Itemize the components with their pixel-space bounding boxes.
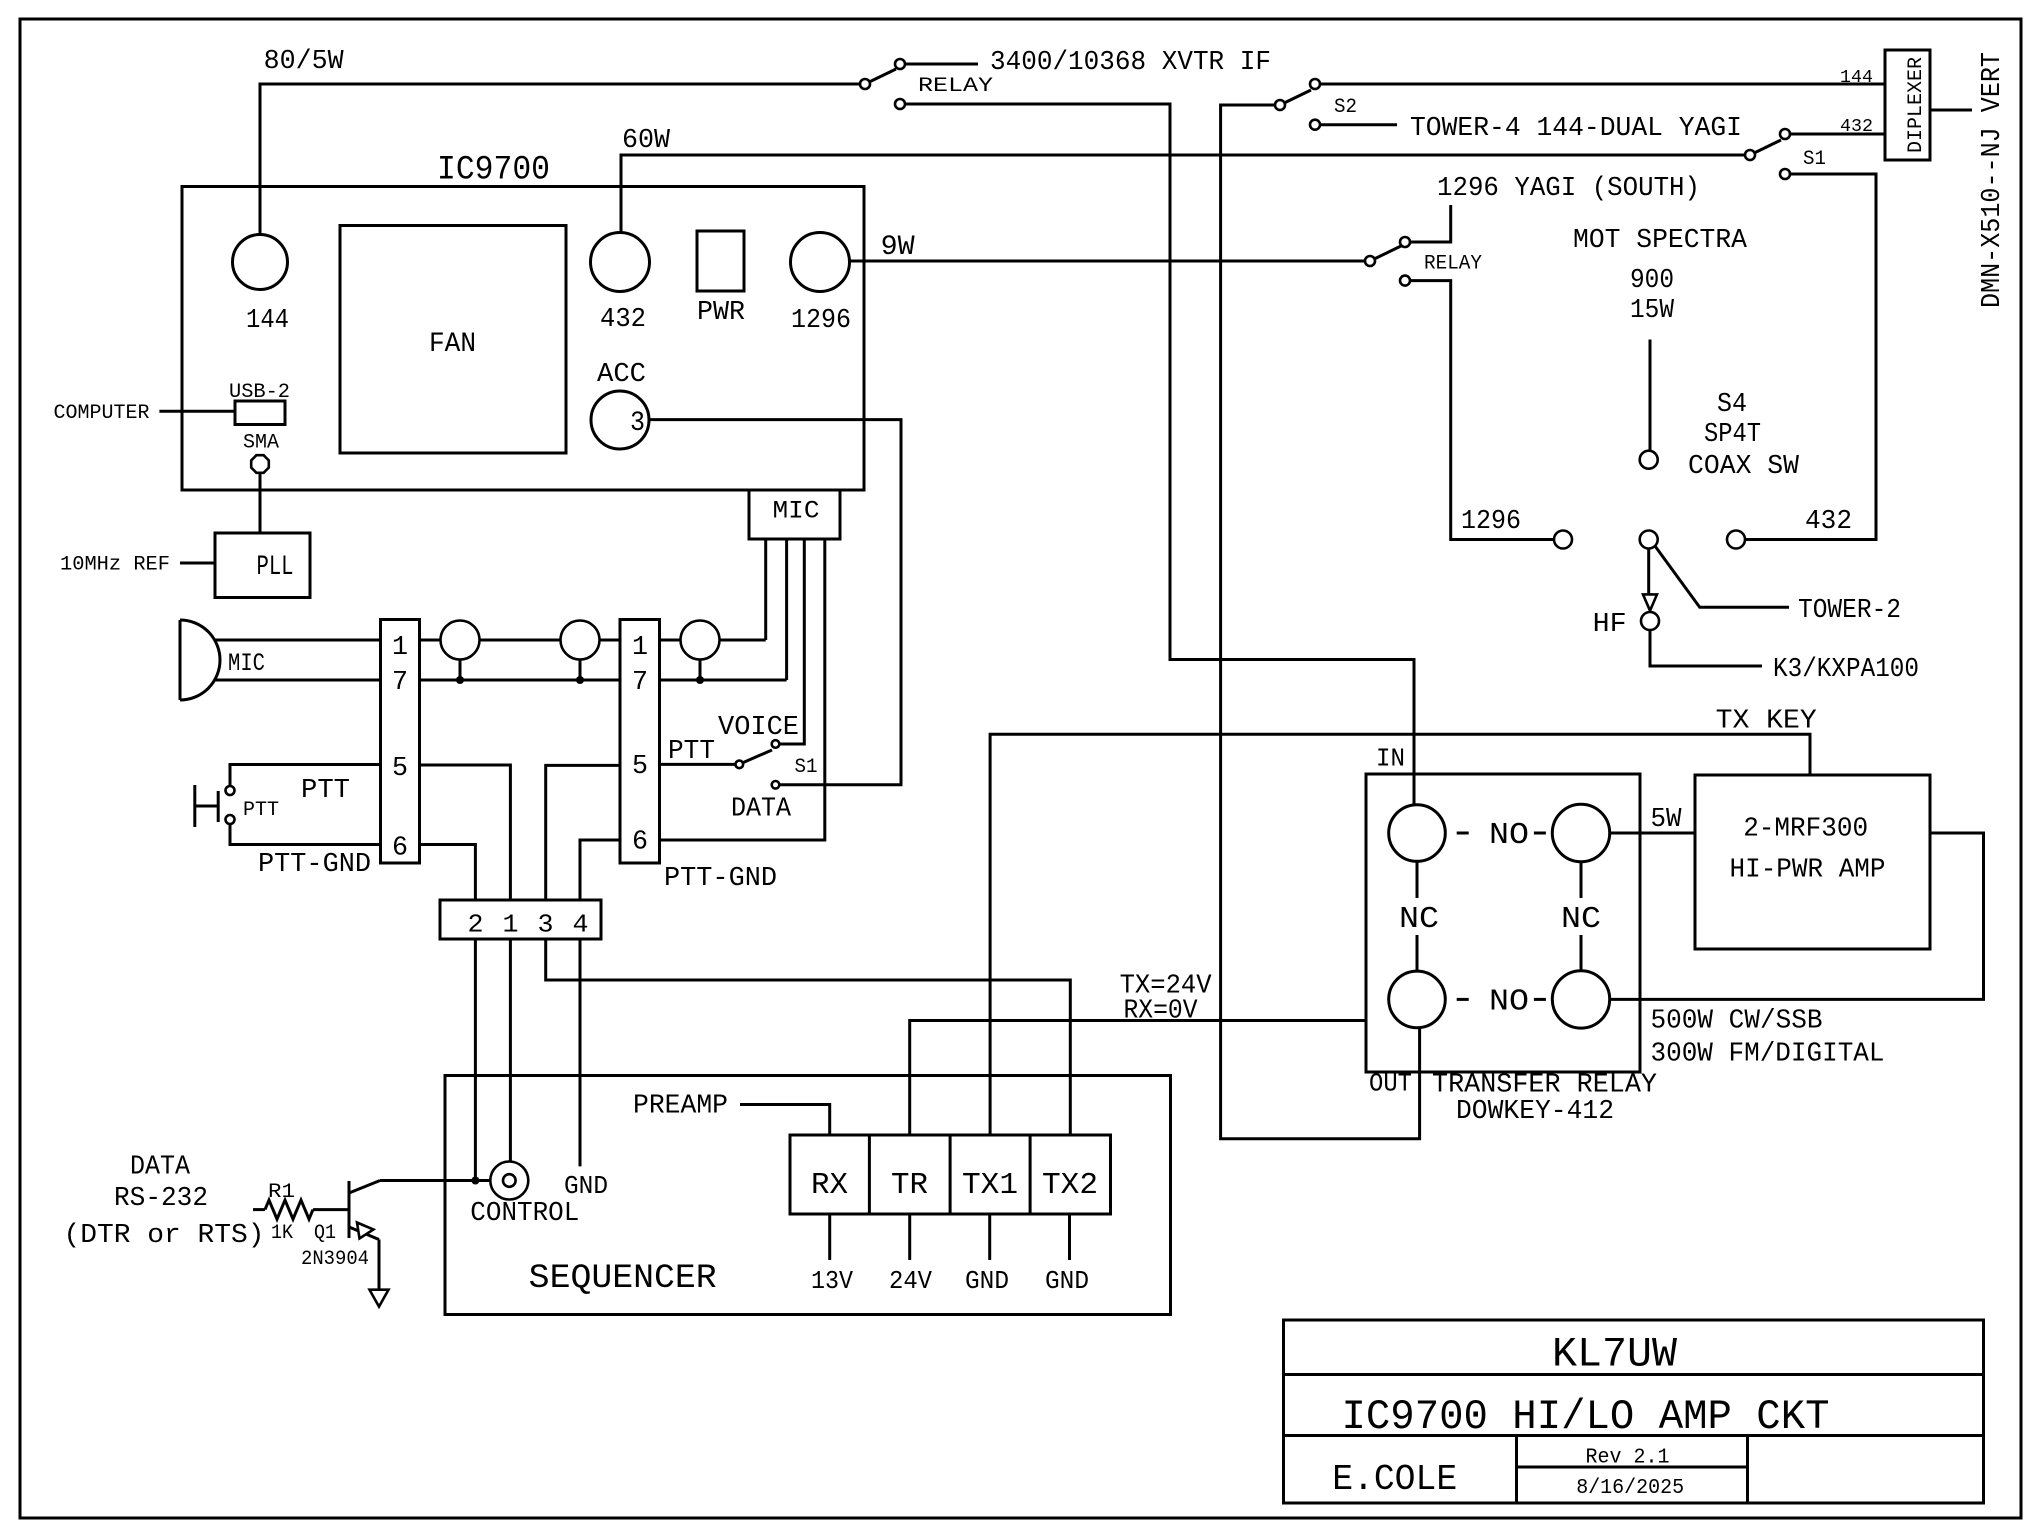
jack 144 — [233, 235, 288, 290]
svg-text:RX=0V: RX=0V — [1124, 997, 1199, 1027]
wire MIC pin3 down to VOICE contact — [779, 539, 804, 744]
svg-text:S1: S1 — [1803, 148, 1826, 171]
svg-text:PLL: PLL — [257, 552, 294, 583]
stub capacitor 2 to ground bus — [579, 660, 582, 681]
wire relay lower contact to transfer relay IN — [905, 104, 1415, 805]
jack ACC — [591, 391, 649, 449]
svg-text:PTT: PTT — [243, 799, 279, 822]
svg-text:1K: 1K — [271, 1222, 293, 1245]
wire PREAMP to RX — [740, 1105, 830, 1136]
svg-text:USB-2: USB-2 — [229, 381, 290, 404]
svg-text:NC: NC — [1399, 902, 1439, 937]
svg-text:TX1: TX1 — [962, 1168, 1018, 1203]
svg-text:TOWER-2: TOWER-2 — [1798, 596, 1901, 626]
connector USB-2 — [235, 401, 285, 425]
ground symbol at Q1 emitter — [370, 1290, 389, 1307]
title block row divider 1 — [1284, 1373, 1984, 1376]
wire TR to transfer relay coil — [910, 1021, 1366, 1136]
pushbutton PTT upper contact — [226, 786, 235, 795]
dash right of bottom NO — [1534, 998, 1546, 1001]
wire TX1 to TX KEY — [990, 734, 1810, 1135]
svg-text:PTT: PTT — [668, 737, 715, 767]
DIPLEXER box — [1885, 50, 1930, 160]
svg-text:DATA: DATA — [130, 1153, 191, 1183]
stub capacitor 3 to ground bus — [699, 660, 702, 681]
wire Q1 collector to CONTROL — [380, 1179, 491, 1182]
mic switch S1 pole contact — [736, 761, 744, 769]
jack 1296 — [791, 233, 850, 292]
stub 24V under TR — [908, 1214, 911, 1260]
svg-text:IN: IN — [1376, 744, 1405, 774]
svg-text:NO: NO — [1489, 818, 1529, 853]
wire SMA to PLL — [259, 474, 262, 534]
stub capacitor 1 to ground bus — [459, 660, 462, 681]
wire J1 pin5 to header pin1 — [420, 765, 511, 900]
wire relay upper contact to XVTR IF — [905, 63, 979, 66]
svg-text:432: 432 — [1840, 117, 1873, 137]
svg-text:3400/10368 XVTR IF: 3400/10368 XVTR IF — [990, 48, 1271, 78]
relay RELAY (1296) upper contact — [1400, 237, 1410, 247]
relay RELAY (1296) arm — [1374, 246, 1401, 259]
svg-text:VOICE: VOICE — [718, 713, 799, 743]
svg-text:1: 1 — [503, 910, 519, 940]
svg-text:SMA: SMA — [243, 432, 279, 455]
wire S2 lower contact to tower-4 — [1319, 123, 1397, 126]
svg-text:S4: S4 — [1717, 390, 1747, 420]
svg-text:24V: 24V — [889, 1266, 932, 1296]
svg-text:TX KEY: TX KEY — [1716, 707, 1817, 737]
wire header pin1 to control connector — [509, 939, 512, 1161]
wire diplexer output to antenna — [1930, 109, 1972, 112]
wire MIC pin1 down to audio bus — [764, 539, 767, 640]
relay RELAY (144 IF) lower contact — [895, 99, 905, 109]
jack 432 — [591, 233, 650, 292]
coax switch S4 input port — [1640, 451, 1658, 469]
svg-text:IC9700 HI/LO AMP CKT: IC9700 HI/LO AMP CKT — [1342, 1393, 1830, 1441]
switch S2 pole contact — [1275, 100, 1285, 110]
svg-text:TR: TR — [891, 1168, 928, 1203]
svg-text:300W FM/DIGITAL: 300W FM/DIGITAL — [1651, 1039, 1885, 1069]
relay RELAY (144 IF) pole contact — [860, 79, 870, 89]
transfer relay port amp-return (bottom-right) — [1552, 971, 1609, 1028]
stub GND under TX2 — [1068, 1214, 1071, 1260]
switch S1 arm — [1754, 140, 1781, 153]
svg-text:2N3904: 2N3904 — [301, 1248, 369, 1271]
coax switch rotor port — [1640, 531, 1658, 549]
PWR square — [697, 231, 744, 291]
svg-text:CONTROL: CONTROL — [470, 1199, 579, 1229]
connector J2 body — [620, 620, 660, 864]
svg-text:RELAY: RELAY — [1424, 253, 1482, 276]
mic switch S1 arm — [743, 750, 772, 763]
coax switch 1296 port — [1554, 531, 1572, 549]
svg-text:HI-PWR AMP: HI-PWR AMP — [1730, 856, 1886, 886]
link top-left port to NC — [1416, 861, 1419, 898]
wire transfer relay to amp input — [1610, 832, 1695, 835]
PLL box — [215, 533, 310, 598]
wire 60W from 432 jack to S1 — [621, 155, 1746, 232]
switch S2 lower contact — [1310, 120, 1320, 130]
wire ground bus J1 to J2 — [420, 679, 621, 682]
wire MIC pin4 down to J2 pin6 — [660, 539, 825, 840]
transfer relay port OUT (bottom-left) — [1389, 971, 1446, 1028]
transistor Q1 base bar — [348, 1181, 351, 1238]
transistor Q1 emitter — [349, 1227, 379, 1240]
svg-text:S1: S1 — [795, 756, 818, 779]
svg-text:PWR: PWR — [697, 298, 745, 328]
svg-text:432: 432 — [600, 305, 646, 335]
wire S1 lower contact to coax switch 432 port — [1745, 174, 1876, 540]
svg-text:GND: GND — [1045, 1266, 1089, 1296]
switch S1 lower contact — [1780, 169, 1790, 179]
svg-text:PTT-GND: PTT-GND — [258, 850, 371, 880]
svg-text:PREAMP: PREAMP — [633, 1091, 728, 1121]
pushbutton PTT stem — [195, 805, 218, 808]
wire 9W from 1296 jack to relay — [850, 260, 1366, 263]
pushbutton PTT lower contact — [226, 815, 235, 824]
svg-text:TOWER-4 144-DUAL YAGI: TOWER-4 144-DUAL YAGI — [1410, 114, 1742, 144]
feedthrough capacitor 1 — [441, 621, 480, 660]
svg-text:1: 1 — [632, 633, 648, 663]
transfer relay port IN (top-left) — [1389, 805, 1446, 862]
svg-text:KL7UW: KL7UW — [1552, 1330, 1678, 1378]
wire 80/5W from 144 jack to relay — [260, 84, 860, 235]
wire J1 pin6 to header pin2 — [420, 845, 476, 901]
svg-text:3: 3 — [630, 408, 645, 439]
title block outer box — [1284, 1320, 1984, 1503]
link NC to bottom-left port — [1416, 935, 1419, 971]
CONTROL coax connector outer — [490, 1162, 528, 1200]
svg-text:TX2: TX2 — [1042, 1168, 1098, 1203]
svg-text:4: 4 — [573, 910, 589, 940]
svg-text:TRANSFER RELAY: TRANSFER RELAY — [1432, 1071, 1657, 1101]
relay RELAY (1296) pole contact — [1365, 256, 1375, 266]
relay RELAY (1296) lower contact — [1400, 276, 1410, 286]
resistor R1 zigzag — [265, 1200, 313, 1219]
relay RELAY (144 IF) arm — [869, 69, 896, 82]
dash left of bottom NO — [1457, 998, 1469, 1001]
wire MIC pin2 down to ground bus — [785, 539, 788, 680]
svg-text:NC: NC — [1561, 902, 1601, 937]
transfer relay port 5W (top-right) — [1552, 804, 1609, 861]
wire Q1 emitter to ground — [378, 1240, 381, 1290]
coax switch rotor arm to TOWER-2 — [1655, 546, 1789, 607]
wire R1 to Q1 base — [313, 1208, 349, 1211]
wire S1 upper contact to diplexer 432 — [1789, 133, 1884, 136]
feedthrough capacitor 2 — [561, 621, 600, 660]
svg-text:GND: GND — [564, 1171, 608, 1201]
junction dot 3 — [696, 676, 704, 684]
title block rev/date divider — [1517, 1466, 1748, 1469]
title block column divider 1 — [1515, 1436, 1518, 1504]
svg-text:DOWKEY-412: DOWKEY-412 — [1456, 1097, 1614, 1127]
svg-text:Q1: Q1 — [314, 1222, 336, 1245]
svg-text:DIPLEXER: DIPLEXER — [1905, 57, 1928, 153]
connector SMA — [251, 455, 269, 473]
wire J2 pin5 to mic switch pole — [660, 763, 736, 766]
svg-text:MIC: MIC — [228, 649, 265, 678]
svg-text:RX: RX — [811, 1168, 848, 1203]
wire rotor to HF arrow — [1647, 549, 1650, 595]
MIC connector box on IC9700 — [749, 490, 840, 539]
relay RELAY (144 IF) upper contact — [895, 59, 905, 69]
svg-text:7: 7 — [392, 668, 408, 698]
transfer relay box — [1366, 774, 1640, 1072]
arrow HF — [1643, 594, 1657, 610]
svg-text:SEQUENCER: SEQUENCER — [529, 1260, 717, 1298]
svg-text:K3/KXPA100: K3/KXPA100 — [1773, 655, 1919, 685]
svg-text:144: 144 — [1840, 68, 1873, 88]
svg-text:PTT: PTT — [301, 776, 350, 806]
title block column divider 2 — [1746, 1436, 1749, 1504]
wire PTT button ground to J1 pin6 — [230, 824, 381, 845]
stub GND under TX1 — [988, 1214, 991, 1260]
wire header pin4 to GND — [579, 939, 582, 1166]
wire header pin3 to sequencer TX2 — [546, 939, 1071, 1135]
svg-text:DMN-X510--NJ VERT: DMN-X510--NJ VERT — [1978, 52, 2008, 308]
svg-text:1296: 1296 — [1461, 507, 1521, 537]
svg-text:SP4T: SP4T — [1704, 420, 1761, 450]
svg-text:COMPUTER: COMPUTER — [54, 402, 150, 425]
svg-text:1296 YAGI (SOUTH): 1296 YAGI (SOUTH) — [1437, 174, 1700, 204]
wire S2 upper contact to diplexer 144 — [1319, 83, 1884, 86]
svg-text:13V: 13V — [811, 1266, 853, 1296]
svg-text:DATA: DATA — [731, 795, 792, 825]
pushbutton PTT actuator bar — [193, 785, 196, 827]
svg-text:RELAY: RELAY — [918, 75, 993, 98]
dash left of top NO — [1457, 832, 1469, 835]
wire J2 pin5 to header pin3 — [546, 765, 620, 900]
svg-text:S2: S2 — [1334, 96, 1357, 119]
svg-text:10MHz REF: 10MHz REF — [60, 554, 170, 577]
svg-text:2: 2 — [468, 910, 484, 940]
switch S1 upper contact — [1780, 129, 1790, 139]
svg-text:144: 144 — [246, 306, 289, 336]
junction dot collector/header pin2 — [471, 1177, 479, 1185]
svg-text:Rev 2.1: Rev 2.1 — [1586, 1447, 1670, 1470]
CONTROL coax connector center pin — [503, 1174, 516, 1187]
svg-text:R1: R1 — [268, 1181, 295, 1204]
switch S1 pole contact — [1745, 150, 1755, 160]
connector J1 body — [381, 620, 420, 864]
svg-text:60W: 60W — [622, 126, 671, 156]
microphone symbol — [180, 620, 220, 700]
svg-text:900: 900 — [1630, 266, 1674, 296]
svg-text:432: 432 — [1805, 507, 1852, 537]
wire J2 pin6 to header pin4 — [580, 840, 620, 900]
wire ground bus J2 to MIC pin2 — [660, 679, 787, 682]
header connector 2-1-3-4 body — [440, 900, 601, 939]
svg-text:1296: 1296 — [791, 306, 851, 336]
svg-text:(DTR or RTS): (DTR or RTS) — [64, 1221, 265, 1251]
svg-text:3: 3 — [538, 910, 554, 940]
transistor Q1 emitter arrow — [357, 1223, 373, 1239]
svg-text:MOT SPECTRA: MOT SPECTRA — [1573, 226, 1748, 256]
svg-text:5: 5 — [632, 752, 648, 782]
IC9700 transceiver box — [182, 187, 864, 491]
svg-text:FAN: FAN — [429, 329, 476, 360]
svg-text:9W: 9W — [881, 232, 915, 263]
junction dot 1 — [456, 676, 464, 684]
title block row divider 2 — [1284, 1434, 1984, 1437]
coax switch 432 port — [1727, 531, 1745, 549]
wire mic ground to connector J1 pin7 — [215, 679, 381, 682]
wire RS-232 to resistor R1 — [253, 1208, 265, 1211]
switch S2 upper contact — [1310, 79, 1320, 89]
sequencer terminal strip RX TR TX1 TX2 — [790, 1135, 1111, 1214]
SEQUENCER box — [445, 1076, 1171, 1315]
amplifier 2-MRF300 box — [1695, 775, 1930, 949]
svg-text:6: 6 — [632, 828, 648, 858]
wire 900 radio to coax switch input — [1649, 340, 1652, 451]
link top-right port to NC — [1580, 861, 1583, 898]
svg-text:NO: NO — [1489, 984, 1529, 1019]
svg-text:1: 1 — [392, 633, 408, 663]
svg-text:PTT-GND: PTT-GND — [664, 864, 777, 894]
svg-text:IC9700: IC9700 — [437, 152, 550, 190]
svg-text:5: 5 — [392, 754, 408, 784]
wire S2 pole to transfer relay OUT — [1221, 105, 1420, 1139]
svg-text:6: 6 — [392, 834, 408, 864]
svg-text:MIC: MIC — [773, 497, 820, 526]
svg-text:8/16/2025: 8/16/2025 — [1576, 1477, 1684, 1500]
svg-text:5W: 5W — [1651, 805, 1683, 835]
HF port circle — [1641, 612, 1659, 630]
stub 13V under RX — [828, 1214, 831, 1260]
FAN box — [340, 226, 566, 454]
wire 1296 relay lower contact to coax switch 1296 port — [1409, 281, 1554, 540]
mic switch S1 VOICE contact — [772, 740, 780, 748]
wire DATA contact to ACC jack — [649, 420, 901, 785]
svg-text:RS-232: RS-232 — [114, 1184, 208, 1214]
svg-text:15W: 15W — [1630, 296, 1675, 326]
svg-text:HF: HF — [1593, 610, 1627, 640]
wire audio bus J1 to J2 — [420, 639, 621, 642]
wire PTT button to J1 pin5 — [230, 765, 381, 787]
svg-text:GND: GND — [965, 1266, 1009, 1296]
link NC to bottom-right port — [1580, 935, 1583, 971]
wire 1296 relay upper contact to 1296 yagi — [1409, 205, 1450, 242]
switch S2 arm — [1284, 90, 1311, 103]
wire audio bus J2 to MIC pin1 — [660, 639, 766, 642]
wire 10MHz REF to PLL — [180, 562, 215, 565]
svg-text:OUT: OUT — [1369, 1069, 1412, 1099]
wire header pin2 to control junction — [474, 939, 477, 1181]
transistor Q1 collector — [349, 1181, 380, 1194]
dash right of top NO — [1534, 832, 1546, 835]
pushbutton PTT plunger bar — [217, 791, 220, 822]
svg-text:80/5W: 80/5W — [264, 47, 345, 77]
wire amp output to transfer relay — [1610, 833, 1984, 999]
wire COMPUTER to USB-2 — [159, 410, 235, 413]
svg-text:ACC: ACC — [597, 360, 646, 390]
wire mic audio to connector J1 pin1 — [215, 639, 381, 642]
feedthrough capacitor 3 — [681, 621, 720, 660]
svg-text:7: 7 — [632, 668, 648, 698]
svg-text:COAX SW: COAX SW — [1688, 452, 1800, 482]
junction dot 2 — [576, 676, 584, 684]
mic switch S1 DATA contact — [772, 781, 780, 789]
svg-text:2-MRF300: 2-MRF300 — [1743, 815, 1868, 845]
wire HF to K3/KXPA100 — [1650, 630, 1762, 666]
svg-text:500W CW/SSB: 500W CW/SSB — [1651, 1007, 1823, 1037]
svg-text:E.COLE: E.COLE — [1332, 1459, 1457, 1500]
